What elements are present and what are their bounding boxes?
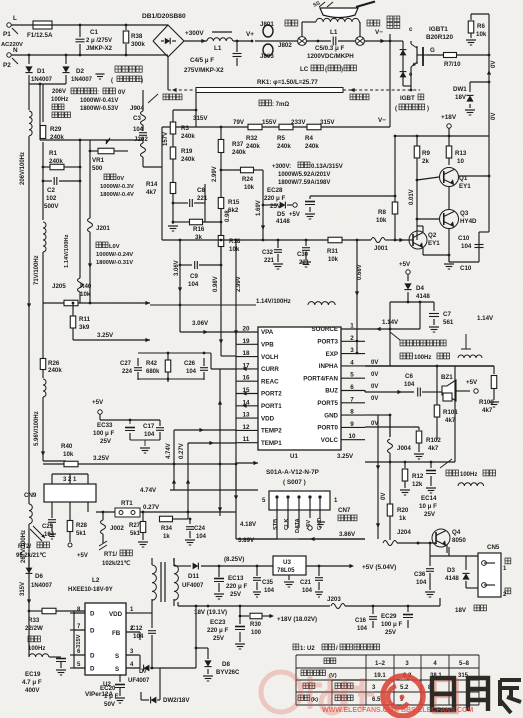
svg-text:C12: C12 — [131, 625, 143, 632]
arrow down rail B — [41, 451, 45, 456]
svg-text:275V/MKP-X2: 275V/MKP-X2 — [184, 67, 224, 74]
svg-text:0.01V: 0.01V — [409, 189, 415, 205]
table header row — [324, 658, 330, 664]
svg-text:VPA: VPA — [261, 329, 274, 336]
svg-text:1N4007: 1N4007 — [71, 77, 93, 83]
svg-text:BZ1: BZ1 — [441, 374, 453, 381]
inductor L1 — [207, 38, 233, 41]
svg-text:PORT2: PORT2 — [261, 391, 282, 398]
svg-text:102: 102 — [46, 195, 57, 202]
svg-text:104: 104 — [133, 633, 144, 640]
svg-text:+300V:: +300V: — [272, 164, 291, 170]
svg-text:0V: 0V — [371, 384, 378, 390]
wire 1.14V/100Hz rail — [150, 304, 256, 306]
jumper J004 — [389, 415, 391, 437]
svg-text:L2: L2 — [92, 577, 100, 584]
wire — [417, 177, 439, 180]
svg-text:1.14V/100Hz: 1.14V/100Hz — [256, 299, 291, 305]
svg-text:D1: D1 — [37, 68, 45, 75]
svg-text:D: D — [90, 628, 95, 635]
svg-text:D11: D11 — [188, 573, 200, 580]
resistor R32 240k — [248, 124, 262, 130]
IC U2 VIPer12A — [85, 603, 126, 675]
resistor R100 4k7 — [491, 376, 497, 389]
svg-text:PORT4/FAN: PORT4/FAN — [303, 375, 338, 382]
svg-text:V+: V+ — [246, 31, 254, 38]
svg-text:6k2: 6k2 — [228, 207, 239, 214]
svg-text:240k: 240k — [181, 133, 195, 140]
svg-text:R29: R29 — [50, 126, 62, 133]
svg-text:EC33: EC33 — [97, 422, 113, 429]
wire riser TEMP1 — [187, 443, 189, 512]
svg-text:10k: 10k — [80, 291, 91, 298]
wire — [416, 180, 418, 240]
svg-text:J201: J201 — [96, 225, 110, 232]
svg-text:RT2/: RT2/ — [18, 544, 31, 550]
svg-text:104: 104 — [416, 579, 427, 586]
watermark red translucent text — [261, 672, 374, 713]
svg-text:240k: 240k — [277, 143, 291, 150]
svg-text:+300V: +300V — [185, 30, 204, 37]
svg-text:240k: 240k — [181, 156, 195, 163]
svg-text:R40: R40 — [61, 443, 73, 450]
svg-text:EC20: EC20 — [100, 685, 116, 692]
svg-text:L: L — [13, 15, 17, 22]
svg-text:10k: 10k — [328, 257, 339, 263]
svg-text:100 μ F: 100 μ F — [381, 621, 403, 628]
wire buzzer rail — [365, 365, 494, 367]
resistor R11 3k9 — [70, 316, 76, 328]
svg-text:TEMP1: TEMP1 — [261, 440, 282, 447]
svg-text:240k: 240k — [246, 143, 260, 150]
diode D8 BYV26C — [196, 647, 208, 649]
node L terminal P1 — [7, 23, 11, 27]
diode D2 1N4007 — [65, 55, 67, 64]
wire — [143, 166, 162, 168]
svg-text:78L05: 78L05 — [277, 567, 295, 574]
svg-text:1800W/-0.53V: 1800W/-0.53V — [80, 106, 118, 112]
svg-text:C2: C2 — [47, 187, 55, 194]
svg-text:0.68V: 0.68V — [357, 264, 363, 280]
svg-text:U3: U3 — [283, 559, 291, 566]
svg-text:R38: R38 — [131, 33, 143, 40]
resistor R34 1k — [160, 516, 173, 522]
svg-text:19: 19 — [242, 338, 250, 345]
diode D1 1N4007 — [28, 55, 30, 64]
svg-text:RT1/: RT1/ — [104, 552, 117, 558]
capacitor EC20 1uF 50V — [119, 675, 121, 682]
resistor R20 1k — [389, 462, 391, 504]
svg-text:13: 13 — [242, 412, 250, 419]
svg-text:R13: R13 — [455, 150, 467, 157]
svg-text:221: 221 — [264, 258, 275, 264]
svg-text:C27: C27 — [120, 361, 132, 367]
svg-text:L0V: L0V — [109, 244, 120, 250]
svg-text:CN9: CN9 — [24, 492, 37, 499]
svg-text:157V: 157V — [163, 132, 169, 146]
svg-text:C24: C24 — [194, 526, 206, 532]
svg-text:104: 104 — [186, 369, 197, 375]
svg-text:0V: 0V — [491, 113, 497, 120]
svg-text:BUZ: BUZ — [325, 388, 338, 395]
svg-text:5k1: 5k1 — [130, 531, 141, 537]
svg-text:HY4D: HY4D — [460, 218, 477, 225]
capacitor EC23 220uF 25V — [239, 606, 241, 624]
svg-text:240k: 240k — [305, 143, 319, 150]
svg-text:STB: STB — [273, 519, 279, 530]
svg-text:C10: C10 — [460, 265, 472, 272]
svg-text:(: ( — [111, 78, 113, 84]
svg-text:C30: C30 — [297, 252, 309, 258]
svg-text:5k1: 5k1 — [76, 531, 87, 537]
svg-text:680k: 680k — [146, 369, 160, 375]
svg-text:10 μ F: 10 μ F — [419, 503, 437, 510]
svg-text:561: 561 — [443, 319, 454, 326]
svg-text:315V: 315V — [20, 582, 26, 596]
resistor R18 10k — [218, 236, 224, 247]
jumper J205 — [78, 278, 83, 292]
svg-text:10k: 10k — [476, 31, 487, 38]
svg-text:220 μ F: 220 μ F — [207, 627, 229, 634]
svg-text:EC13: EC13 — [228, 575, 244, 582]
svg-text:PORT3: PORT3 — [317, 339, 338, 346]
resistor R4 240k — [307, 124, 321, 130]
svg-text:1000W/-0.41V: 1000W/-0.41V — [80, 98, 118, 104]
svg-text:FB: FB — [112, 630, 121, 637]
resistor RK1 shunt bar — [196, 88, 343, 93]
wire row 462 — [365, 461, 455, 463]
svg-text:IGBT: IGBT — [400, 95, 415, 102]
svg-text:10k: 10k — [244, 185, 255, 191]
wire — [40, 139, 143, 141]
svg-text:PORT5: PORT5 — [317, 400, 338, 407]
resistor R33 22/2W — [42, 608, 56, 614]
svg-text:DB1/D20SB80: DB1/D20SB80 — [142, 13, 186, 20]
diode D5 4148 +5V — [263, 204, 278, 206]
svg-text:Q4: Q4 — [452, 529, 461, 536]
svg-text:CLK: CLK — [284, 519, 290, 531]
svg-text:GND: GND — [324, 412, 338, 419]
wire 3.86V row — [236, 538, 365, 540]
svg-text:4.74V: 4.74V — [140, 487, 157, 494]
svg-text:0V: 0V — [117, 176, 124, 182]
svg-text:1k: 1k — [399, 515, 406, 522]
svg-text:J202: J202 — [134, 136, 148, 143]
svg-text:D4: D4 — [416, 285, 424, 292]
connector CN5 fan — [478, 553, 501, 597]
svg-text:(: ( — [325, 67, 327, 73]
svg-text:4k7: 4k7 — [445, 417, 456, 424]
svg-text:B20R120: B20R120 — [426, 34, 453, 41]
wire left rail A — [28, 84, 30, 110]
svg-text:+5V: +5V — [289, 212, 300, 218]
svg-text:R6: R6 — [477, 23, 485, 30]
svg-text:R15: R15 — [228, 199, 240, 206]
svg-text:D6: D6 — [35, 573, 43, 580]
resistor R14 4k7 — [170, 183, 176, 194]
label heating check — [387, 16, 393, 22]
wire right rail — [488, 14, 490, 136]
svg-text:CN5: CN5 — [487, 544, 500, 551]
svg-text:100Hz: 100Hz — [51, 97, 68, 103]
svg-text:J001: J001 — [374, 245, 388, 252]
svg-text:2.99V: 2.99V — [236, 276, 242, 292]
svg-text:400V: 400V — [25, 687, 40, 694]
wire row 240 — [162, 239, 221, 241]
svg-text:INPHA: INPHA — [319, 363, 339, 370]
svg-text:104: 104 — [461, 243, 472, 250]
svg-text:C1: C1 — [90, 29, 98, 36]
table row normal voltage — [301, 670, 307, 676]
svg-text:50V: 50V — [104, 701, 116, 708]
label 3.25V arrow — [253, 461, 258, 465]
svg-text:2k: 2k — [422, 158, 429, 165]
svg-text:D8: D8 — [222, 661, 230, 668]
svg-text:1N4007: 1N4007 — [31, 77, 53, 83]
resistor R102 4k7 — [418, 427, 420, 430]
svg-text:104: 104 — [357, 626, 368, 632]
svg-text:0V: 0V — [381, 493, 387, 500]
capacitor C24 104 — [189, 519, 191, 524]
svg-text:N: N — [13, 47, 18, 54]
node P2 terminal — [7, 53, 11, 57]
capacitor C1 — [79, 25, 81, 37]
svg-text:0.98V: 0.98V — [213, 276, 219, 292]
svg-text:J002: J002 — [110, 525, 124, 532]
svg-text:R20: R20 — [397, 507, 409, 514]
wire risers — [179, 240, 181, 305]
svg-text:R32: R32 — [246, 135, 258, 142]
svg-text:71V/100Hz: 71V/100Hz — [34, 255, 40, 285]
svg-text:R12: R12 — [412, 473, 424, 480]
svg-text:: 7mΩ: : 7mΩ — [272, 102, 289, 108]
wire — [448, 255, 450, 262]
svg-text:Q2: Q2 — [428, 232, 437, 239]
svg-text:1k: 1k — [163, 534, 170, 540]
svg-text:PORT1: PORT1 — [261, 403, 282, 410]
arrow down rail A — [27, 303, 31, 308]
wire — [364, 40, 390, 42]
diode D7 UF4007 — [139, 655, 141, 668]
svg-text:PORT0: PORT0 — [317, 425, 338, 432]
inductor rail B lower — [43, 379, 46, 397]
svg-text:DW1: DW1 — [453, 86, 467, 93]
svg-text:0V: 0V — [371, 372, 378, 378]
wire — [390, 301, 434, 303]
svg-text:4.7 μ F: 4.7 μ F — [22, 679, 42, 686]
svg-text:6.5: 6.5 — [372, 697, 381, 703]
svg-text:CURR: CURR — [261, 366, 279, 373]
svg-text:0.27V: 0.27V — [143, 504, 160, 511]
wire rows to bottom — [235, 464, 237, 512]
svg-text:4148: 4148 — [276, 218, 290, 225]
capacitor C30 221 — [305, 240, 307, 246]
wire — [89, 270, 91, 303]
wire Q4 to CN5 — [446, 545, 448, 553]
svg-text:C16: C16 — [355, 618, 367, 624]
svg-text:R4: R4 — [305, 135, 313, 142]
svg-text:18: 18 — [242, 350, 250, 357]
svg-text:(8.25V): (8.25V) — [224, 556, 244, 563]
wire — [394, 135, 489, 137]
op-amp U1 S01A-A-V12-N-7P main IC — [258, 327, 341, 450]
svg-text:S: S — [115, 653, 119, 660]
svg-text:5.96V/100Hz: 5.96V/100Hz — [34, 411, 40, 446]
capacitor C9 104 — [180, 264, 192, 266]
wire — [96, 511, 115, 513]
svg-text:R11: R11 — [79, 316, 91, 323]
wire — [167, 24, 169, 26]
zener DW1 18V — [470, 81, 489, 83]
svg-text:Q3: Q3 — [460, 210, 469, 217]
wire 315V feed — [28, 560, 30, 572]
svg-text:R33: R33 — [28, 617, 40, 624]
svg-text:10: 10 — [457, 158, 464, 165]
svg-text:221: 221 — [299, 260, 310, 266]
svg-text:104: 104 — [404, 381, 415, 388]
svg-text:HXEE10-18V-9Y: HXEE10-18V-9Y — [68, 587, 113, 593]
svg-text:104: 104 — [196, 534, 207, 540]
watermark logo ring — [383, 676, 423, 716]
svg-text:4k7: 4k7 — [482, 407, 493, 414]
svg-text:18V: 18V — [455, 94, 467, 101]
svg-text:S: S — [115, 666, 119, 673]
svg-text:EXP: EXP — [326, 351, 338, 358]
resistor R27 5k1 — [140, 522, 146, 533]
svg-text:C36: C36 — [414, 571, 426, 578]
svg-text:+5V: +5V — [92, 399, 104, 406]
svg-text:P1: P1 — [3, 31, 11, 38]
capacitor EC13 220uF 25V — [218, 566, 220, 577]
label spike note — [390, 332, 400, 340]
wire — [11, 24, 33, 26]
svg-text::: : — [97, 90, 99, 96]
svg-text:C5/0.3 μ F: C5/0.3 μ F — [315, 45, 344, 52]
wire main row — [195, 90, 197, 127]
capacitor C7 561 — [433, 302, 435, 311]
wire 18V row — [178, 605, 330, 607]
svg-text:VPB: VPB — [261, 342, 274, 349]
capacitor C32 221 — [277, 240, 279, 248]
svg-text:6: 6 — [350, 384, 354, 391]
wire dashed ground-current right — [343, 89, 420, 91]
wire 0.68V riser — [356, 240, 358, 353]
coil terminal right — [356, 37, 365, 46]
svg-text:C8: C8 — [197, 187, 205, 194]
svg-text:DW2/18V: DW2/18V — [163, 697, 190, 704]
transistor Q4 8050 — [432, 529, 450, 547]
svg-text:EC28: EC28 — [267, 187, 283, 194]
svg-text:R19: R19 — [181, 148, 193, 155]
table row black probe — [298, 695, 304, 701]
wire — [188, 511, 236, 513]
svg-text:3.06V: 3.06V — [192, 320, 209, 327]
svg-text:240k: 240k — [48, 367, 62, 374]
svg-text:R100: R100 — [479, 399, 494, 406]
resistor R5 240k — [279, 124, 293, 130]
resistor R7/10 — [427, 54, 444, 56]
svg-text:+5V: +5V — [399, 261, 411, 268]
svg-text:5–8: 5–8 — [459, 661, 470, 667]
svg-text:R34: R34 — [161, 526, 173, 532]
svg-text:1 μ F: 1 μ F — [104, 693, 119, 700]
svg-text:R37: R37 — [232, 141, 244, 148]
svg-text:22/2W: 22/2W — [25, 625, 43, 632]
wire VOLC riser — [235, 332, 237, 464]
svg-text:3k9: 3k9 — [79, 324, 90, 331]
svg-text:0.27V: 0.27V — [179, 443, 185, 459]
svg-text:3 2 1: 3 2 1 — [63, 477, 77, 483]
resistor R15 6k2 — [218, 198, 224, 209]
svg-text:1200VDC/MKPH: 1200VDC/MKPH — [307, 53, 354, 60]
svg-text:16: 16 — [242, 375, 250, 382]
svg-text:3.89V: 3.89V — [238, 537, 255, 544]
label filter note 2 — [440, 459, 452, 468]
svg-text:+18V: +18V — [441, 114, 457, 121]
svg-text:1000W/-0.3V: 1000W/-0.3V — [100, 184, 134, 190]
svg-text:3.25V: 3.25V — [93, 455, 110, 462]
svg-text:R42: R42 — [146, 361, 158, 367]
table row red probe — [303, 683, 309, 689]
capacitor C21 104 — [318, 565, 321, 568]
svg-text:DATA: DATA — [295, 518, 301, 533]
svg-text:10: 10 — [348, 433, 356, 440]
svg-text:25V: 25V — [230, 591, 242, 598]
svg-text:): ) — [427, 106, 429, 112]
svg-text:8: 8 — [350, 409, 354, 416]
inductor on rail A — [29, 111, 32, 136]
svg-text:R101: R101 — [443, 409, 458, 416]
capacitor C2 — [43, 180, 52, 182]
svg-text:C7: C7 — [443, 311, 451, 318]
wire rail B — [42, 84, 44, 122]
wire CN7 links — [276, 528, 278, 539]
svg-text:C21: C21 — [300, 580, 312, 586]
svg-text:206V/100Hz: 206V/100Hz — [20, 152, 26, 185]
resistor R29 240k — [40, 126, 46, 139]
transistor Q2 EY1 — [409, 231, 427, 249]
svg-text:SOURCE: SOURCE — [312, 326, 338, 333]
svg-text:233V: 233V — [291, 119, 306, 126]
resistor R30 100 — [240, 615, 249, 617]
svg-text:VOLH: VOLH — [261, 354, 279, 361]
jumper J201 — [88, 218, 93, 232]
inductor on rail B — [43, 222, 46, 252]
wire U2 pins — [140, 612, 152, 614]
pan icon — [320, 8, 358, 18]
svg-text:R102: R102 — [426, 437, 441, 444]
svg-text:JMKP-X2: JMKP-X2 — [86, 46, 113, 52]
transistor Q3 HY4D — [440, 210, 459, 229]
capacitor C10 104 — [478, 240, 480, 262]
svg-text:C9: C9 — [190, 273, 198, 280]
capacitor C8 221 — [173, 202, 188, 204]
svg-text:7: 7 — [350, 396, 354, 403]
svg-text:J004: J004 — [397, 445, 411, 452]
svg-text:C32: C32 — [262, 250, 274, 256]
svg-text:10k: 10k — [63, 451, 74, 458]
wire source row — [365, 328, 420, 330]
svg-text:+18V (18.02V): +18V (18.02V) — [277, 616, 317, 623]
svg-text:D: D — [90, 611, 95, 618]
svg-text:1–2: 1–2 — [375, 661, 386, 667]
svg-text:240k: 240k — [232, 149, 246, 156]
svg-text:25V: 25V — [100, 438, 112, 445]
svg-text:+5V: +5V — [466, 379, 478, 386]
svg-text:R24: R24 — [242, 177, 254, 183]
resistor R31 10k — [328, 237, 342, 243]
svg-text:C10: C10 — [458, 235, 470, 242]
